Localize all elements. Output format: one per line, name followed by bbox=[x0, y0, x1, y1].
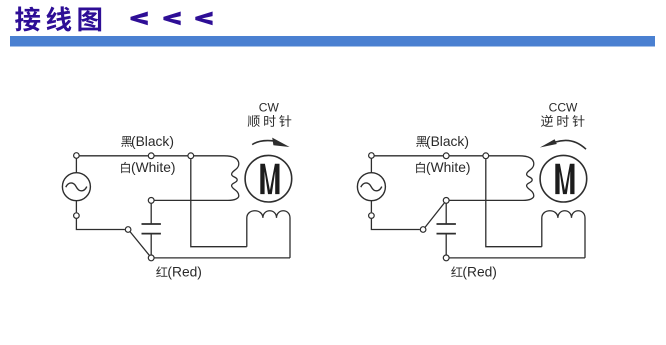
label white lead circuit 1 bbox=[121, 162, 130, 173]
label black lead circuit 2 bbox=[416, 136, 427, 147]
start winding L2b coil bbox=[542, 211, 585, 258]
main winding L1a coil bbox=[194, 156, 239, 201]
svg-text:(Black): (Black) bbox=[131, 134, 174, 149]
motor M1 circle bbox=[245, 155, 292, 202]
wire black top (AC top terminal to winding) bbox=[76, 156, 187, 173]
terminal white lead circuit 1 bbox=[148, 198, 154, 204]
wire red bottom (red terminal to start winding) circuit 2 bbox=[450, 257, 586, 259]
terminal AC top circuit 2 bbox=[369, 153, 375, 159]
switch S2 pivot terminal bbox=[420, 227, 426, 233]
node junction black/main-winding circuit 1 bbox=[188, 153, 194, 159]
start winding L1b coil bbox=[247, 211, 290, 258]
rotation arrow CW bbox=[252, 141, 274, 145]
terminal AC bottom circuit 2 bbox=[369, 213, 375, 219]
capacitor C2 plates bbox=[437, 224, 456, 234]
motor M1 letter M bbox=[260, 164, 279, 194]
terminal black lead circuit 1 bbox=[148, 153, 154, 159]
wire white (white terminal to main winding bottom) circuit 2 bbox=[449, 199, 523, 201]
wire junction to start winding loop circuit 2 bbox=[486, 159, 542, 247]
terminal white lead circuit 2 bbox=[443, 198, 449, 204]
wire AC bottom lead circuit 1 bbox=[76, 201, 125, 230]
wire white (white terminal to main winding bottom) circuit 1 bbox=[154, 199, 228, 201]
svg-text:(Red): (Red) bbox=[462, 265, 497, 280]
wire junction to start winding loop circuit 1 bbox=[191, 159, 247, 247]
title chevrons < < < bbox=[131, 12, 148, 26]
terminal red lead circuit 2 bbox=[443, 255, 449, 261]
main winding L2a coil bbox=[489, 156, 534, 201]
wire capacitor C1 leads bbox=[150, 203, 152, 255]
AC source G1 circle bbox=[62, 173, 90, 201]
motor M2 circle bbox=[540, 155, 587, 202]
AC source G2 sine wave bbox=[361, 183, 382, 191]
wire capacitor C2 leads bbox=[445, 203, 447, 255]
label white lead circuit 2 bbox=[416, 162, 425, 173]
capacitor C1 plates bbox=[142, 224, 161, 234]
svg-text:(Red): (Red) bbox=[167, 265, 202, 280]
terminal red lead circuit 1 bbox=[148, 255, 154, 261]
terminal black lead circuit 2 bbox=[443, 153, 449, 159]
motor M2 letter M bbox=[555, 164, 574, 194]
blue header bar bbox=[10, 36, 655, 47]
terminal AC bottom circuit 1 bbox=[74, 213, 80, 219]
node junction black/main-winding circuit 2 bbox=[483, 153, 489, 159]
svg-text:(White): (White) bbox=[131, 160, 175, 175]
wire AC bottom lead circuit 2 bbox=[371, 201, 420, 230]
label shunshizhen bbox=[248, 115, 260, 127]
label black lead circuit 1 bbox=[121, 136, 132, 147]
svg-text:CW: CW bbox=[259, 101, 280, 115]
wire black top (AC top terminal to winding) right circuit bbox=[371, 156, 482, 173]
wire red bottom (red terminal to start winding) circuit 1 bbox=[155, 257, 291, 259]
svg-text:(Black): (Black) bbox=[426, 134, 469, 149]
page title 接线图 bbox=[15, 7, 40, 32]
AC source G1 sine wave bbox=[66, 183, 87, 191]
switch S1 lever bbox=[130, 232, 149, 255]
rotation arrow CCW bbox=[556, 140, 587, 149]
svg-text:(White): (White) bbox=[426, 160, 470, 175]
label red lead circuit 1 bbox=[156, 266, 167, 277]
terminal AC top circuit 1 bbox=[74, 153, 80, 159]
switch S2 lever bbox=[425, 203, 444, 227]
svg-text:CCW: CCW bbox=[549, 101, 578, 115]
label nishizhen bbox=[541, 115, 553, 127]
label red lead circuit 2 bbox=[451, 266, 462, 277]
AC source G2 circle bbox=[357, 173, 385, 201]
switch S1 pivot terminal bbox=[125, 227, 131, 233]
